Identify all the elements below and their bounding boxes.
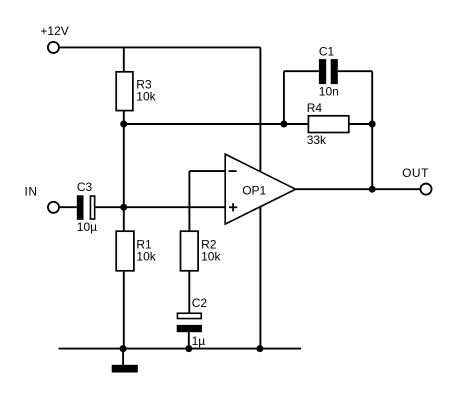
wire +12V rail [60, 46, 261, 48]
resistor R3 [116, 72, 133, 111]
svg-text:OUT: OUT [402, 166, 429, 180]
capacitor C1 [319, 59, 338, 84]
wire node A to noninverting input [95, 206, 225, 208]
svg-text:C2: C2 [192, 296, 208, 310]
ground [112, 365, 138, 373]
wire R4 right [350, 123, 373, 125]
junction R4/C1 right [369, 121, 376, 128]
wire R1 bottom [123, 272, 125, 349]
wire C1 right horizontal [338, 70, 372, 72]
svg-text:33k: 33k [307, 133, 327, 147]
wire ground rail [59, 348, 302, 350]
wire opamp power top [259, 47, 261, 171]
junction R3/feedback [120, 121, 127, 128]
wire inverting input to R2 [188, 171, 190, 230]
resistor R1 [116, 231, 134, 271]
svg-text:10µ: 10µ [77, 220, 97, 234]
wire IN to C3 [60, 206, 77, 208]
resistor R4 [308, 116, 348, 133]
wire node A vertical [123, 124, 125, 207]
op-amp minus input marker [229, 170, 237, 172]
wire inverting input [189, 170, 225, 172]
wire R3 top [123, 47, 125, 71]
svg-text:OP1: OP1 [242, 183, 266, 197]
capacitor C3 [77, 195, 95, 220]
wire output [296, 188, 421, 190]
wire feedback left [124, 123, 308, 125]
junction R1/ground [120, 345, 127, 352]
capacitor C2 [177, 313, 202, 332]
wire C1 right vertical [371, 71, 373, 124]
wire R3 bottom [123, 111, 125, 124]
svg-text:+12V: +12V [40, 24, 68, 38]
svg-text:10n: 10n [319, 85, 339, 99]
resistor R2 [181, 231, 199, 271]
svg-text:1µ: 1µ [192, 334, 206, 348]
svg-text:IN: IN [25, 185, 38, 199]
wire R1 top [123, 207, 125, 230]
svg-text:10k: 10k [136, 249, 156, 263]
junction opamp/ground [256, 345, 263, 352]
junction output node [369, 186, 376, 193]
svg-text:10k: 10k [201, 249, 221, 263]
junction C2/ground [185, 345, 192, 352]
svg-text:R4: R4 [307, 101, 323, 115]
junction node A [120, 204, 127, 211]
wire R2 bottom [188, 272, 190, 313]
svg-text:10k: 10k [136, 89, 156, 103]
junction C1/R4 left [280, 121, 287, 128]
op-amp OP1 [225, 154, 295, 224]
terminal IN [48, 202, 59, 213]
svg-text:C3: C3 [77, 180, 93, 194]
wire feedback to output [371, 124, 373, 189]
wire ground stub [122, 349, 124, 365]
svg-text:C1: C1 [319, 45, 335, 59]
wire C1 left horizontal [284, 70, 319, 72]
wire C2 bottom [188, 332, 190, 348]
op-amp plus input marker [229, 203, 237, 211]
wire opamp power bottom [259, 207, 261, 349]
terminal OUT [420, 184, 431, 195]
wire C1 left vertical [283, 71, 285, 124]
terminal +12V [48, 42, 59, 53]
